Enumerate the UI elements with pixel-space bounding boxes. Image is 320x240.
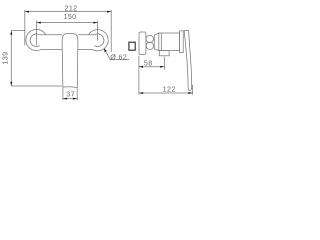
dim 37 extension line right <box>76 88 78 100</box>
cartridge cap ring <box>180 31 184 53</box>
body top line <box>40 34 95 36</box>
dim 37 extension line left <box>62 88 64 100</box>
leader line for diameter 62 <box>104 48 129 59</box>
dim 139 top extension line <box>11 30 25 32</box>
left flange inner arc <box>30 34 40 47</box>
cone top line <box>154 33 159 35</box>
handle lever (side view) <box>184 31 192 91</box>
arrow 122 right <box>188 92 192 94</box>
svg-text:58: 58 <box>144 60 153 68</box>
dim 122 extension line right <box>192 85 194 95</box>
dim 58 extension line right <box>163 57 165 70</box>
arrow 37 left <box>63 98 67 100</box>
right flange outer arc <box>89 30 109 51</box>
dim 58 line <box>139 66 165 68</box>
neck vertical line <box>153 35 155 50</box>
arrow 37 right <box>73 98 77 100</box>
wall flange (side) <box>139 32 146 54</box>
cone bottom line <box>154 49 159 51</box>
body front inner line <box>160 33 162 51</box>
arrow 58 left <box>139 66 143 68</box>
dim 122 line <box>139 92 193 94</box>
arrow 122 left <box>139 92 143 94</box>
svg-text:150: 150 <box>63 13 76 21</box>
body (side) rectangle <box>159 33 180 51</box>
dim 58 extension line left (wall plane) <box>138 56 140 95</box>
dim 139 line <box>10 31 12 86</box>
dim 212 line <box>25 11 111 13</box>
dim 150 extension line right (right flange centerline) <box>97 21 99 41</box>
arrow 58 right <box>160 66 164 68</box>
arrows <box>10 11 192 100</box>
arrow 150 right <box>93 22 97 24</box>
handle with arched cap (front view) <box>62 34 78 88</box>
dim 139 bottom extension line <box>11 85 62 87</box>
body bottom line <box>41 48 92 50</box>
dim 212 extension line right <box>110 10 112 52</box>
arrow 150 left <box>37 22 41 24</box>
hose outlet <box>159 51 169 56</box>
right flange inner arc <box>94 34 104 47</box>
arrow 139 top <box>10 31 12 35</box>
inlet square (side view) <box>129 42 135 50</box>
left flange outer arc <box>26 29 46 50</box>
svg-text:Ø 62: Ø 62 <box>110 53 127 61</box>
dim 212 extension line left <box>24 10 26 46</box>
svg-text:139: 139 <box>1 51 9 64</box>
union nut lower circle <box>146 42 153 49</box>
svg-text:122: 122 <box>163 86 176 94</box>
dim 150 line <box>37 22 98 24</box>
dim 150 extension line left (left flange centerline) <box>36 21 38 46</box>
dimension texts <box>1 5 175 99</box>
arrow 139 bottom <box>10 82 12 86</box>
dim 37 line <box>63 98 77 100</box>
union nut upper circle <box>146 35 153 42</box>
svg-text:212: 212 <box>64 5 77 13</box>
svg-text:37: 37 <box>66 90 75 98</box>
arrow 212 left <box>25 11 29 13</box>
arrow leader d62 <box>104 48 107 52</box>
arrow 212 right <box>107 11 111 13</box>
